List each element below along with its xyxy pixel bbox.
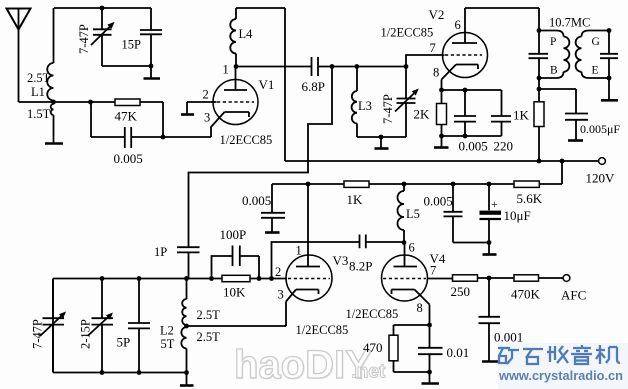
svg-text:.net: .net [352, 362, 386, 383]
svg-text:100P: 100P [220, 227, 247, 242]
svg-text:0.005: 0.005 [459, 139, 488, 154]
svg-text:0.01: 0.01 [447, 345, 470, 360]
svg-text:1K: 1K [513, 108, 530, 123]
svg-text:2: 2 [203, 88, 209, 102]
svg-text:L1: L1 [31, 85, 45, 99]
svg-text:8.2P: 8.2P [349, 259, 372, 274]
svg-text:2: 2 [275, 265, 281, 279]
svg-text:6: 6 [455, 18, 461, 32]
svg-text:8: 8 [433, 66, 439, 80]
svg-text:7-47P: 7-47P [31, 319, 45, 349]
svg-text:L2: L2 [160, 324, 174, 338]
svg-text:6: 6 [409, 241, 415, 255]
svg-text:1.5T: 1.5T [27, 107, 51, 121]
svg-text:10K: 10K [223, 285, 246, 300]
svg-text:3: 3 [204, 111, 210, 125]
svg-text:L5: L5 [406, 207, 420, 221]
svg-text:6.8P: 6.8P [302, 79, 325, 94]
svg-text:P: P [550, 36, 556, 48]
svg-text:V3: V3 [333, 253, 349, 268]
svg-text:10.7MC: 10.7MC [549, 16, 590, 30]
svg-text:220: 220 [494, 139, 514, 154]
svg-text:5P: 5P [117, 335, 131, 350]
svg-text:B: B [550, 65, 558, 77]
svg-text:7-47P: 7-47P [381, 94, 395, 124]
svg-text:2.5T: 2.5T [197, 330, 221, 344]
svg-text:0.005μF: 0.005μF [580, 122, 620, 136]
svg-text:1: 1 [223, 63, 229, 77]
svg-text:+: + [491, 197, 498, 211]
svg-text:5T: 5T [161, 337, 175, 351]
svg-text:G: G [592, 36, 600, 48]
svg-text:10μF: 10μF [504, 208, 531, 223]
svg-text:V1: V1 [259, 77, 275, 92]
svg-text:0.005: 0.005 [424, 194, 453, 209]
svg-text:1/2ECC85: 1/2ECC85 [346, 307, 399, 321]
svg-text:L3: L3 [358, 99, 372, 113]
svg-text:0.005: 0.005 [242, 193, 271, 208]
svg-text:470K: 470K [511, 287, 541, 302]
svg-text:1/2ECC85: 1/2ECC85 [381, 26, 434, 40]
svg-text:www.crystalradio.cn: www.crystalradio.cn [498, 368, 623, 383]
svg-text:2.5T: 2.5T [197, 308, 221, 322]
svg-text:E: E [592, 65, 599, 77]
svg-text:470: 470 [363, 340, 383, 355]
svg-text:L4: L4 [239, 27, 254, 41]
svg-text:15P: 15P [122, 38, 142, 52]
svg-text:1/2ECC85: 1/2ECC85 [296, 323, 349, 337]
svg-text:1/2ECC85: 1/2ECC85 [220, 133, 273, 147]
svg-text:V2: V2 [429, 7, 445, 22]
svg-text:1K: 1K [347, 192, 364, 207]
svg-text:1: 1 [296, 244, 302, 258]
svg-text:1P: 1P [154, 245, 167, 259]
svg-text:7: 7 [430, 41, 436, 55]
svg-text:2-15P: 2-15P [79, 319, 93, 349]
svg-text:0.001: 0.001 [494, 330, 523, 345]
svg-text:8: 8 [417, 301, 423, 315]
svg-text:AFC: AFC [561, 288, 586, 303]
svg-text:2K: 2K [414, 107, 431, 122]
svg-text:5.6K: 5.6K [517, 191, 543, 206]
svg-text:47K: 47K [115, 109, 138, 124]
svg-text:3: 3 [278, 288, 284, 302]
svg-text:0.005: 0.005 [114, 151, 143, 166]
svg-text:2.5T: 2.5T [27, 71, 51, 85]
svg-text:7-47P: 7-47P [77, 24, 91, 54]
svg-text:120V: 120V [586, 171, 616, 186]
svg-text:7: 7 [430, 264, 436, 278]
svg-text:250: 250 [451, 284, 471, 299]
